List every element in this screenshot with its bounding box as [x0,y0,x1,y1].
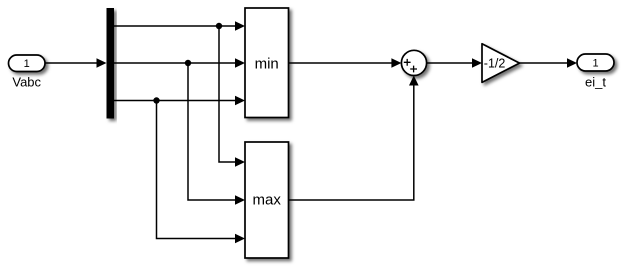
demux [107,8,115,119]
svg-text:ei_t: ei_t [585,74,606,89]
wire junction1 to max in1 [219,26,245,167]
wire demux out1 to min in1 [114,21,245,31]
svg-text:Vabc: Vabc [12,74,41,89]
wire sum to gain [427,58,482,68]
plus sign (bottom input) [410,66,417,73]
svg-text:1: 1 [592,58,598,70]
gain block -1/2 [482,44,520,83]
svg-text:1: 1 [24,58,30,70]
wire junction3 to max in3 [157,101,246,244]
junction node on wire 3 [153,97,159,103]
wire max out to sum (bottom) [289,76,419,201]
wire demux out2 to min in2 [114,58,245,68]
outport block 1 (ei_t) [577,54,614,71]
wire min out to sum [289,58,402,68]
svg-text:-1/2: -1/2 [484,56,506,70]
wire gain to outport [520,58,578,68]
inport block 1 (Vabc) [9,55,46,72]
junction node on wire 1 [216,23,222,29]
wire junction2 to max in2 [188,63,245,205]
svg-text:min: min [255,55,279,72]
max block [245,142,289,258]
wire Vabc to demux [45,58,107,68]
junction node on wire 2 [185,60,191,66]
sum block U1 [401,50,426,75]
plus sign (left input) [404,59,411,66]
wire demux out3 to min in3 [114,96,245,106]
svg-text:max: max [253,191,282,208]
min block [245,8,289,118]
